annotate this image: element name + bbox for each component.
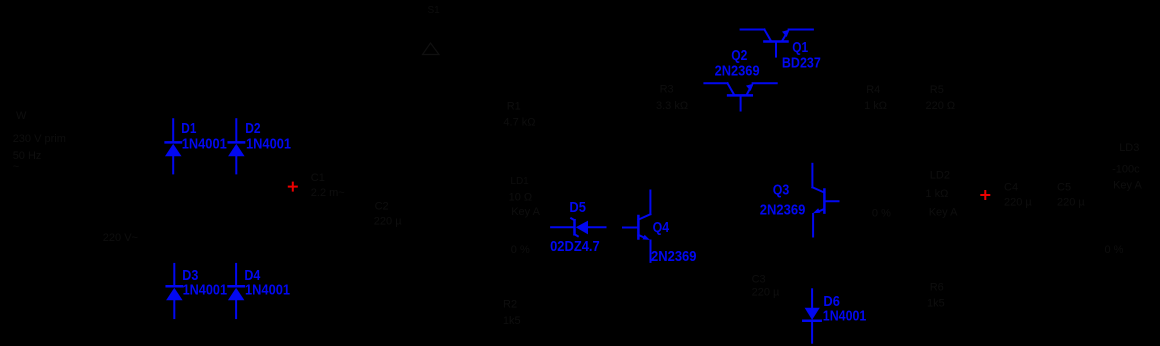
svg-text:R5: R5 xyxy=(930,84,944,96)
transistor Q3 xyxy=(812,164,838,237)
svg-text:~: ~ xyxy=(13,161,19,173)
svg-text:1 kΩ: 1 kΩ xyxy=(864,100,887,112)
svg-text:S1: S1 xyxy=(428,5,441,16)
svg-text:Key A: Key A xyxy=(511,206,540,218)
svg-text:220 Ω: 220 Ω xyxy=(926,100,956,112)
svg-text:3.3 kΩ: 3.3 kΩ xyxy=(656,100,688,112)
svg-text:10 Ω: 10 Ω xyxy=(509,191,533,203)
svg-text:1N4001: 1N4001 xyxy=(183,282,227,298)
transistor Q4 xyxy=(623,191,651,262)
svg-text:220 V~: 220 V~ xyxy=(103,232,138,244)
svg-text:1N4001: 1N4001 xyxy=(823,309,867,325)
svg-text:Q1: Q1 xyxy=(792,40,808,56)
svg-text:2.2 m~: 2.2 m~ xyxy=(311,187,345,199)
diode D1 xyxy=(165,119,182,173)
svg-text:0 %: 0 % xyxy=(1105,244,1124,256)
capacitor C4 polarity plus xyxy=(981,191,989,199)
svg-text:C1: C1 xyxy=(311,172,325,184)
svg-text:2N2369: 2N2369 xyxy=(760,203,806,219)
svg-text:2N2369: 2N2369 xyxy=(651,249,697,265)
svg-text:1k5: 1k5 xyxy=(503,315,521,327)
svg-text:-100c: -100c xyxy=(1112,163,1140,175)
svg-text:R2: R2 xyxy=(503,299,517,311)
diode D4 xyxy=(228,264,245,318)
capacitor C1 polarity plus xyxy=(289,183,297,191)
svg-text:R1: R1 xyxy=(507,101,521,113)
svg-text:220 µ: 220 µ xyxy=(752,287,780,299)
svg-text:1N4001: 1N4001 xyxy=(245,282,290,298)
svg-text:230 V prim: 230 V prim xyxy=(13,133,66,145)
svg-text:Q2: Q2 xyxy=(731,48,747,64)
svg-text:220 µ: 220 µ xyxy=(1057,197,1085,209)
svg-text:220 µ: 220 µ xyxy=(1004,197,1032,209)
svg-text:D1: D1 xyxy=(181,121,196,137)
svg-text:0 %: 0 % xyxy=(511,244,530,256)
svg-text:R3: R3 xyxy=(660,83,674,95)
transistor Q2 xyxy=(704,83,776,110)
svg-text:1k5: 1k5 xyxy=(927,297,945,309)
svg-text:1N4001: 1N4001 xyxy=(182,136,227,152)
svg-text:0 %: 0 % xyxy=(872,208,891,220)
svg-text:LD3: LD3 xyxy=(1119,142,1139,154)
svg-text:Key A: Key A xyxy=(1113,180,1142,192)
svg-text:W: W xyxy=(16,110,27,122)
svg-text:D5: D5 xyxy=(569,200,586,216)
svg-text:2N2369: 2N2369 xyxy=(715,64,760,80)
svg-text:C5: C5 xyxy=(1057,181,1071,193)
svg-text:Q4: Q4 xyxy=(653,220,670,236)
svg-text:4.7 kΩ: 4.7 kΩ xyxy=(503,117,535,129)
svg-text:LD1: LD1 xyxy=(510,176,529,187)
svg-text:1 kΩ: 1 kΩ xyxy=(925,188,948,200)
svg-text:R6: R6 xyxy=(930,282,944,294)
diode D3 xyxy=(166,264,183,318)
diode D6 xyxy=(803,289,820,342)
zener diode D5 xyxy=(551,218,605,236)
svg-text:Key A: Key A xyxy=(929,207,958,219)
svg-text:LD2: LD2 xyxy=(930,169,950,181)
svg-text:Q3: Q3 xyxy=(773,182,790,198)
diode D2 xyxy=(228,119,245,173)
svg-text:C3: C3 xyxy=(752,273,766,285)
svg-text:02DZ4.7: 02DZ4.7 xyxy=(550,239,600,255)
svg-text:1N4001: 1N4001 xyxy=(246,136,291,152)
svg-text:220 µ: 220 µ xyxy=(374,216,402,228)
svg-text:D2: D2 xyxy=(245,121,260,137)
svg-text:C2: C2 xyxy=(375,200,389,212)
svg-text:BD237: BD237 xyxy=(782,56,821,72)
svg-text:C4: C4 xyxy=(1004,181,1018,193)
transistor Q1 xyxy=(741,30,813,57)
svg-text:R4: R4 xyxy=(866,84,880,96)
lamp glyph xyxy=(423,43,440,55)
